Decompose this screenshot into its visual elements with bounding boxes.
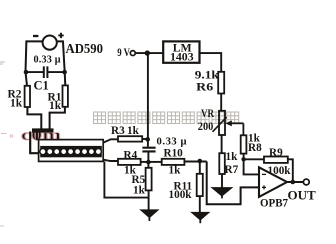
svg-text:1k: 1k — [49, 100, 62, 112]
wire R8 bottom to minus input — [244, 154, 259, 175]
wire R5 bottom lead — [148, 190, 150, 210]
wire R9 to output — [288, 159, 293, 182]
wire corner path to opamp plus — [207, 162, 259, 205]
op-amp OPB7 triangle — [259, 167, 287, 197]
svg-text:R8: R8 — [248, 142, 262, 154]
ground under R5 — [141, 210, 159, 221]
regulator LM1403 box — [163, 41, 199, 62]
plus mark inside opamp — [262, 185, 266, 189]
svg-text:100k: 100k — [169, 189, 193, 201]
wire sensor to R4 — [103, 160, 118, 161]
resistor R7 body — [219, 153, 225, 174]
svg-text:1k: 1k — [133, 184, 146, 196]
terminal OUT circle — [303, 179, 309, 185]
junction dot right of C1 — [62, 70, 67, 75]
resistor R8 body — [241, 135, 247, 153]
junction dot output feedback — [291, 180, 296, 185]
AD590 plus terminal mark — [58, 33, 63, 38]
junction dot R11 tap — [198, 159, 203, 164]
svg-text:C1: C1 — [34, 78, 49, 92]
wire to sensor top corner — [36, 132, 38, 140]
node: top rail wire — [26, 40, 63, 42]
capacitor C1 plates — [44, 66, 48, 78]
minus mark inside opamp — [262, 173, 266, 175]
ground under R7 — [212, 188, 232, 199]
terminal 9V circle — [130, 51, 135, 56]
AD590 minus terminal mark — [33, 35, 38, 37]
wire right rail — [63, 40, 65, 85]
resistor R11 body — [197, 174, 203, 196]
wire sensor bottom to R5 bottom — [104, 161, 148, 197]
resistor R10 body — [162, 159, 185, 165]
junction dot left of C1 — [24, 70, 29, 75]
wiper arrow of VR — [231, 122, 244, 124]
capacitor C1 wires — [25, 71, 65, 73]
svg-text:9.1k: 9.1k — [195, 68, 220, 81]
junction dot 9V rail — [145, 50, 150, 55]
resistor R2 body — [25, 86, 30, 107]
svg-text:R3: R3 — [111, 125, 125, 137]
wire R11 top lead — [199, 161, 201, 174]
wire left rail — [26, 40, 28, 85]
wire wiper to R8 — [242, 123, 244, 135]
resistor R4 body — [118, 159, 141, 165]
junction dot R3 center rail — [145, 137, 150, 142]
svg-text:1403: 1403 — [170, 50, 194, 64]
watermark red .c0m — [1, 127, 61, 144]
svg-text:200: 200 — [198, 121, 214, 133]
wire R4 to center junction — [141, 161, 149, 163]
svg-text:VR: VR — [201, 108, 215, 120]
wire cap to R4 junction — [147, 152, 149, 167]
svg-text:OUT: OUT — [288, 188, 317, 203]
wire center rail from 9V down — [147, 53, 149, 146]
potentiometer VR body — [219, 111, 225, 135]
resistor R1 body — [63, 85, 68, 106]
capacitor 0.33u plates — [142, 148, 155, 152]
svg-text:R9: R9 — [269, 147, 283, 159]
svg-text:9 V: 9 V — [117, 46, 130, 59]
resistor R6 body — [218, 72, 224, 94]
sensor element outer frame — [39, 140, 104, 162]
wire VR bottom to R7 — [221, 135, 223, 153]
svg-text:R10: R10 — [164, 148, 184, 160]
junction dot R4 junction — [146, 160, 151, 165]
wire R7 bottom lead — [221, 174, 223, 188]
watermark gray company text — [94, 112, 239, 124]
resistor R9 body — [264, 157, 288, 163]
wire R6 to VR — [220, 94, 222, 111]
svg-text:R6: R6 — [196, 81, 213, 93]
current source AD590 circle — [43, 36, 57, 50]
wire to sensor left mid — [30, 132, 39, 154]
wire R3 to center rail — [142, 138, 148, 140]
wire 9V to LM box — [135, 52, 163, 54]
wire sensor to R3 — [103, 139, 118, 142]
svg-text:0.33 μ: 0.33 μ — [34, 55, 61, 66]
wire R1 lead step down — [50, 107, 65, 130]
svg-text:R4: R4 — [124, 149, 138, 161]
wire opamp output — [287, 181, 303, 183]
svg-text:1k: 1k — [127, 125, 140, 137]
sensor element coil rings — [40, 146, 102, 157]
svg-text:OPB7: OPB7 — [260, 195, 288, 209]
wire LM box to R6 — [200, 53, 222, 72]
wire junction bar — [32, 128, 54, 132]
wire R2 lead step down — [27, 107, 41, 130]
svg-text:0.33 μ: 0.33 μ — [157, 137, 187, 148]
ground under R11 — [192, 212, 210, 223]
wire R8 junction to R9 — [244, 158, 264, 160]
resistor R5 body — [146, 168, 152, 191]
scan speck left edge lower — [0, 225, 4, 227]
svg-text:1k: 1k — [169, 165, 182, 177]
wire R11 bottom lead — [199, 196, 201, 213]
wire R10 right to corner — [184, 161, 206, 163]
svg-text:1k: 1k — [226, 151, 239, 163]
svg-text:1k: 1k — [10, 98, 23, 110]
svg-text:AD590: AD590 — [66, 41, 104, 56]
svg-text:R7: R7 — [225, 164, 239, 176]
resistor R3 body — [118, 136, 142, 141]
scan speck left edge — [0, 62, 5, 64]
junction dot R8 R9 — [241, 157, 245, 161]
wire center junction to R10 — [148, 161, 161, 163]
